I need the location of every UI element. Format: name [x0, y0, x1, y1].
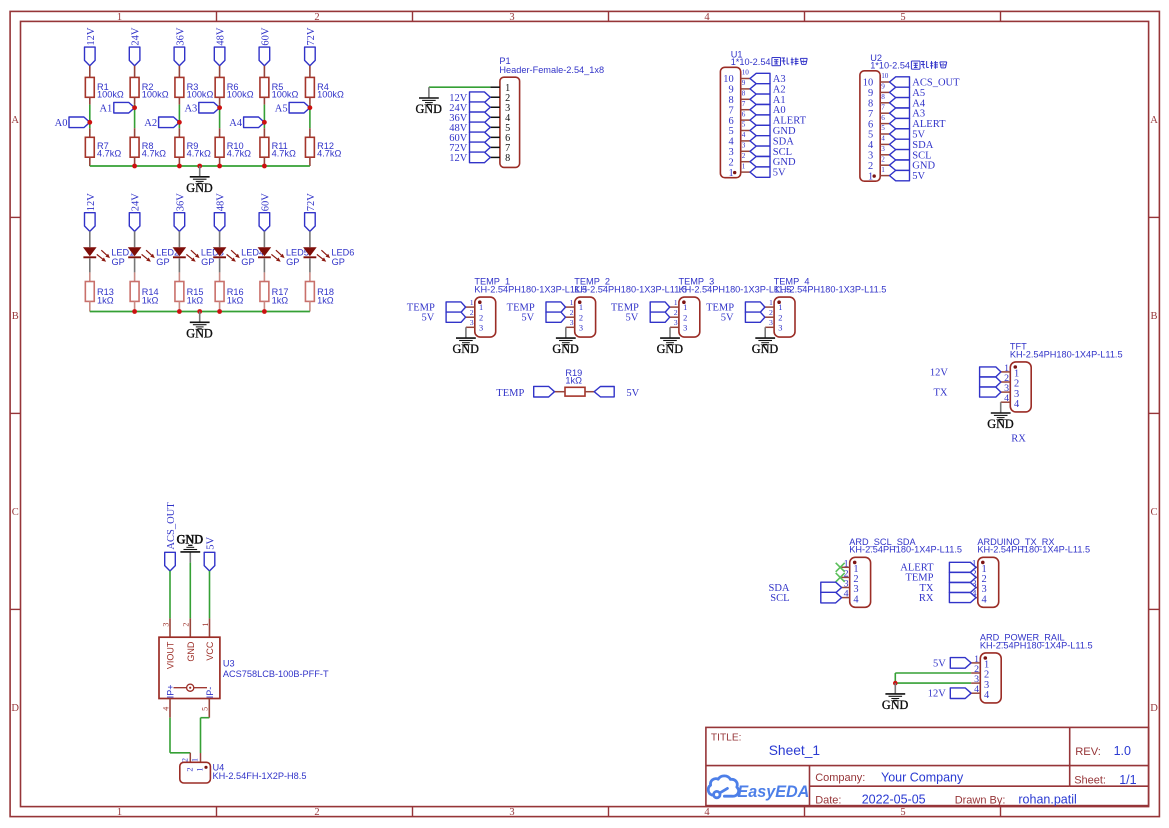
svg-text:4: 4: [728, 137, 734, 148]
svg-text:GND: GND: [657, 342, 684, 356]
svg-text:1: 1: [674, 298, 678, 307]
svg-text:5V: 5V: [773, 168, 786, 179]
svg-text:36V: 36V: [175, 193, 186, 212]
svg-text:1: 1: [117, 12, 122, 23]
svg-text:9: 9: [881, 83, 885, 91]
svg-text:GND: GND: [186, 641, 196, 662]
svg-text:72V: 72V: [306, 27, 317, 46]
svg-text:2: 2: [182, 623, 191, 627]
svg-text:4: 4: [881, 135, 885, 143]
svg-text:12V: 12V: [86, 27, 97, 46]
svg-text:2: 2: [683, 313, 687, 322]
svg-text:A1: A1: [99, 103, 112, 114]
svg-text:3: 3: [742, 142, 746, 150]
svg-text:24V: 24V: [131, 27, 142, 46]
svg-text:100kΩ: 100kΩ: [187, 89, 214, 99]
svg-text:D: D: [1150, 703, 1158, 714]
svg-text:1kΩ: 1kΩ: [272, 295, 289, 305]
svg-text:5V: 5V: [912, 171, 925, 182]
svg-text:2: 2: [314, 12, 319, 23]
svg-text:4.7kΩ: 4.7kΩ: [317, 149, 341, 159]
svg-text:2: 2: [184, 767, 194, 771]
svg-text:Header-Female-2.54_1x8: Header-Female-2.54_1x8: [499, 65, 604, 75]
svg-text:KH-2.54PH180-1X4P-L11.5: KH-2.54PH180-1X4P-L11.5: [977, 545, 1090, 555]
svg-text:4: 4: [742, 131, 746, 139]
svg-text:REV:: REV:: [1075, 746, 1101, 758]
svg-text:4: 4: [981, 594, 987, 605]
svg-text:KH-2.54PH180-1X4P-L11.5: KH-2.54PH180-1X4P-L11.5: [849, 545, 962, 555]
svg-text:ACS758LCB-100B-PFF-T: ACS758LCB-100B-PFF-T: [223, 669, 329, 679]
svg-text:GP: GP: [112, 257, 125, 267]
svg-text:1: 1: [728, 168, 733, 179]
svg-text:C: C: [1150, 507, 1157, 518]
svg-text:2: 2: [868, 161, 873, 172]
svg-text:GND: GND: [773, 126, 796, 137]
svg-text:72V: 72V: [306, 193, 317, 212]
svg-text:2: 2: [579, 313, 583, 322]
svg-text:4: 4: [984, 690, 990, 701]
svg-text:U3: U3: [223, 658, 235, 668]
svg-text:10: 10: [723, 74, 733, 85]
svg-text:1: 1: [769, 298, 773, 307]
svg-text:3: 3: [579, 323, 583, 332]
svg-text:KH-2.54PH180-1X4P-L11.5: KH-2.54PH180-1X4P-L11.5: [1010, 349, 1123, 359]
svg-text:3: 3: [509, 12, 514, 23]
svg-text:KH-2.54PH180-1X4P-L11.5: KH-2.54PH180-1X4P-L11.5: [980, 640, 1093, 650]
svg-text:6: 6: [728, 116, 733, 127]
svg-text:6: 6: [881, 114, 885, 122]
svg-text:Sheet_1: Sheet_1: [769, 743, 820, 758]
svg-text:4.7kΩ: 4.7kΩ: [272, 149, 296, 159]
svg-text:2: 2: [778, 313, 782, 322]
svg-text:VIOUT: VIOUT: [166, 641, 176, 669]
svg-text:GND: GND: [186, 181, 213, 195]
svg-text:GND: GND: [752, 342, 779, 356]
svg-text:GND: GND: [452, 342, 479, 356]
svg-text:A2: A2: [144, 118, 157, 129]
svg-text:3: 3: [470, 318, 474, 327]
svg-text:1kΩ: 1kΩ: [187, 295, 204, 305]
svg-text:3: 3: [868, 151, 873, 162]
svg-text:A2: A2: [773, 84, 786, 95]
svg-text:1: 1: [117, 807, 122, 818]
svg-text:1kΩ: 1kΩ: [565, 376, 582, 386]
svg-text:2: 2: [314, 807, 319, 818]
svg-text:6: 6: [742, 110, 746, 118]
svg-text:1: 1: [778, 303, 782, 312]
svg-text:5: 5: [900, 12, 905, 23]
svg-text:4.7kΩ: 4.7kΩ: [142, 149, 166, 159]
svg-text:4: 4: [1014, 399, 1020, 410]
svg-text:5: 5: [900, 807, 905, 818]
svg-text:C: C: [12, 507, 19, 518]
svg-text:2022-05-05: 2022-05-05: [862, 793, 926, 807]
svg-text:2: 2: [181, 758, 190, 762]
svg-text:2: 2: [728, 157, 733, 168]
svg-text:A4: A4: [229, 118, 243, 129]
svg-text:GND: GND: [773, 157, 796, 168]
svg-text:48V: 48V: [216, 193, 227, 212]
svg-text:9: 9: [742, 79, 746, 87]
svg-text:SCL: SCL: [770, 593, 789, 604]
svg-text:2: 2: [479, 313, 483, 322]
svg-text:ACS_OUT: ACS_OUT: [912, 78, 960, 89]
svg-text:2: 2: [570, 308, 574, 317]
svg-text:GP: GP: [286, 257, 299, 267]
svg-text:SCL: SCL: [773, 147, 792, 158]
svg-text:KH-2.54FH-1X2P-H8.5: KH-2.54FH-1X2P-H8.5: [213, 771, 307, 781]
svg-text:IP-: IP-: [205, 687, 215, 699]
svg-text:2: 2: [881, 155, 885, 163]
svg-text:4: 4: [868, 140, 874, 151]
svg-text:5V: 5V: [421, 312, 434, 323]
svg-text:KH-2.54PH180-1X3P-L11.5: KH-2.54PH180-1X3P-L11.5: [474, 285, 587, 295]
svg-text:5: 5: [201, 707, 210, 711]
svg-text:5: 5: [728, 126, 733, 137]
svg-text:A5: A5: [275, 103, 288, 114]
svg-text:5: 5: [881, 124, 885, 132]
svg-text:3: 3: [570, 318, 574, 327]
svg-text:2: 2: [769, 308, 773, 317]
svg-text:ALERT: ALERT: [912, 119, 946, 130]
svg-text:A5: A5: [912, 88, 925, 99]
svg-text:RX: RX: [1011, 433, 1026, 444]
svg-text:SDA: SDA: [912, 140, 933, 151]
svg-text:3: 3: [728, 147, 733, 158]
svg-text:Date:: Date:: [815, 794, 841, 806]
svg-text:1: 1: [191, 758, 200, 762]
svg-text:ALERT: ALERT: [773, 116, 807, 127]
svg-text:GND: GND: [186, 326, 213, 340]
svg-text:IP+: IP+: [165, 684, 175, 698]
svg-text:4: 4: [704, 807, 710, 818]
svg-text:5V: 5V: [626, 388, 639, 399]
svg-text:3: 3: [778, 323, 782, 332]
svg-text:4.7kΩ: 4.7kΩ: [97, 149, 121, 159]
svg-text:12V: 12V: [86, 193, 97, 212]
svg-text:24V: 24V: [131, 193, 142, 212]
svg-text:GP: GP: [156, 257, 169, 267]
svg-text:EasyEDA: EasyEDA: [737, 783, 809, 801]
svg-text:4.7kΩ: 4.7kΩ: [227, 149, 251, 159]
svg-text:1: 1: [579, 303, 583, 312]
svg-text:100kΩ: 100kΩ: [272, 89, 299, 99]
svg-text:KH-2.54PH180-1X3P-L11.5: KH-2.54PH180-1X3P-L11.5: [574, 285, 687, 295]
svg-text:1kΩ: 1kΩ: [317, 295, 334, 305]
svg-text:A0: A0: [55, 118, 68, 129]
svg-text:8: 8: [505, 153, 510, 164]
svg-text:36V: 36V: [175, 27, 186, 46]
svg-text:6: 6: [868, 119, 873, 130]
svg-text:4: 4: [161, 707, 170, 711]
svg-text:4.7kΩ: 4.7kΩ: [187, 149, 211, 159]
svg-text:1: 1: [868, 171, 873, 182]
svg-text:RX: RX: [919, 593, 934, 604]
svg-text:4: 4: [704, 12, 710, 23]
svg-text:GND: GND: [882, 698, 909, 712]
svg-text:D: D: [11, 703, 19, 714]
svg-text:Your Company: Your Company: [881, 771, 964, 785]
svg-text:A3: A3: [773, 74, 786, 85]
svg-text:B: B: [12, 311, 19, 322]
svg-text:8: 8: [868, 99, 873, 110]
svg-text:1: 1: [195, 767, 205, 771]
svg-text:GND: GND: [912, 161, 935, 172]
svg-text:SCL: SCL: [912, 150, 931, 161]
svg-text:7: 7: [728, 105, 733, 116]
svg-text:5V: 5V: [933, 658, 946, 669]
svg-text:A4: A4: [912, 98, 926, 109]
svg-text:Sheet:: Sheet:: [1074, 775, 1106, 787]
svg-text:12V: 12V: [930, 367, 949, 378]
svg-text:KH-2.54PH180-1X3P-L11.5: KH-2.54PH180-1X3P-L11.5: [774, 285, 887, 295]
svg-text:A3: A3: [184, 103, 197, 114]
svg-text:10: 10: [742, 69, 750, 77]
svg-text:48V: 48V: [216, 27, 227, 46]
svg-text:2: 2: [742, 152, 746, 160]
svg-text:5V: 5V: [626, 312, 639, 323]
svg-text:5: 5: [868, 130, 873, 141]
svg-text:7: 7: [868, 109, 873, 120]
svg-text:3: 3: [769, 318, 773, 327]
svg-text:100kΩ: 100kΩ: [317, 89, 344, 99]
svg-text:1: 1: [570, 298, 574, 307]
svg-text:GND: GND: [987, 417, 1014, 431]
svg-text:A0: A0: [773, 105, 786, 116]
svg-text:7: 7: [881, 103, 885, 111]
svg-text:GP: GP: [332, 257, 345, 267]
svg-text:A: A: [1150, 115, 1158, 126]
svg-text:100kΩ: 100kΩ: [97, 89, 124, 99]
svg-text:rohan.patil: rohan.patil: [1018, 793, 1076, 807]
svg-text:5: 5: [742, 121, 746, 129]
svg-text:Drawn By:: Drawn By:: [955, 794, 1006, 806]
svg-text:1: 1: [479, 303, 483, 312]
svg-text:9: 9: [868, 88, 873, 99]
svg-text:10: 10: [863, 78, 873, 89]
svg-text:1: 1: [201, 623, 210, 627]
svg-text:1: 1: [470, 298, 474, 307]
svg-text:GND: GND: [176, 532, 203, 546]
svg-text:12V: 12V: [449, 153, 468, 164]
svg-text:ACS_OUT: ACS_OUT: [166, 502, 177, 550]
svg-text:1kΩ: 1kΩ: [97, 295, 114, 305]
svg-text:1: 1: [742, 162, 746, 170]
svg-text:VCC: VCC: [205, 641, 215, 661]
svg-text:7: 7: [742, 100, 746, 108]
svg-text:3: 3: [161, 623, 170, 627]
svg-text:TEMP: TEMP: [496, 388, 524, 399]
svg-text:12V: 12V: [928, 689, 947, 700]
svg-text:1kΩ: 1kΩ: [227, 295, 244, 305]
svg-text:TITLE:: TITLE:: [711, 732, 742, 743]
svg-text:TX: TX: [934, 388, 948, 399]
svg-text:3: 3: [509, 807, 514, 818]
svg-text:8: 8: [881, 93, 885, 101]
svg-text:1: 1: [683, 303, 687, 312]
svg-text:1*10-2.54: 1*10-2.54: [731, 57, 771, 67]
svg-text:10: 10: [881, 72, 889, 80]
svg-text:60V: 60V: [260, 27, 271, 46]
svg-text:1kΩ: 1kΩ: [142, 295, 159, 305]
svg-text:60V: 60V: [260, 193, 271, 212]
svg-text:8: 8: [728, 95, 733, 106]
svg-text:A: A: [11, 115, 19, 126]
svg-text:GND: GND: [552, 342, 579, 356]
svg-text:5V: 5V: [721, 312, 734, 323]
svg-text:5V: 5V: [205, 537, 216, 550]
svg-text:5V: 5V: [521, 312, 534, 323]
svg-text:2: 2: [674, 308, 678, 317]
svg-text:2: 2: [470, 308, 474, 317]
svg-text:GND: GND: [415, 102, 442, 116]
svg-text:3: 3: [674, 318, 678, 327]
svg-text:1/1: 1/1: [1119, 773, 1136, 787]
svg-text:8: 8: [742, 90, 746, 98]
svg-text:9: 9: [728, 85, 733, 96]
svg-text:1: 1: [881, 166, 885, 174]
svg-text:B: B: [1150, 311, 1157, 322]
svg-text:Company:: Company:: [815, 772, 865, 784]
svg-text:SDA: SDA: [773, 136, 794, 147]
svg-text:100kΩ: 100kΩ: [227, 89, 254, 99]
svg-text:3: 3: [881, 145, 885, 153]
svg-text:3: 3: [683, 323, 687, 332]
svg-text:A3: A3: [912, 109, 925, 120]
svg-text:5V: 5V: [912, 130, 925, 141]
svg-text:1.0: 1.0: [1114, 744, 1131, 758]
svg-text:4: 4: [853, 594, 859, 605]
svg-text:100kΩ: 100kΩ: [142, 89, 169, 99]
svg-text:GP: GP: [201, 257, 214, 267]
svg-text:1*10-2.54: 1*10-2.54: [870, 61, 910, 71]
svg-text:3: 3: [479, 323, 483, 332]
svg-text:GP: GP: [241, 257, 254, 267]
svg-text:A1: A1: [773, 95, 786, 106]
